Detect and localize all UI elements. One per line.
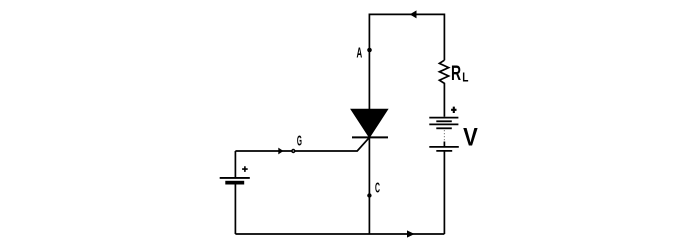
battery V stub wire: [443, 142, 445, 147]
battery V cell plate short 3: [436, 150, 452, 152]
svg-text:V: V: [463, 123, 478, 151]
SCR gate diagonal: [235, 137, 369, 151]
battery V cell plate long 1: [429, 117, 458, 119]
junction dot G: [291, 149, 295, 153]
battery V cell plate short 1: [436, 120, 452, 122]
wire bottom rail: [235, 233, 444, 235]
wire left battery branch: [234, 151, 236, 234]
battery V cell plate short 2: [436, 127, 452, 129]
svg-text:L: L: [462, 70, 468, 85]
resistor RL: [439, 60, 448, 116]
battery E thick negative plate: [225, 181, 244, 185]
battery V cell plate long 2: [429, 123, 458, 125]
battery E long plate: [220, 177, 250, 179]
arrow bottom (pointing right): [407, 231, 414, 237]
node C: [367, 193, 371, 197]
battery V cell plate long 3: [429, 146, 459, 148]
svg-text:G: G: [297, 134, 302, 149]
node A: [367, 48, 372, 53]
SCR cathode bar: [352, 136, 388, 138]
svg-text:A: A: [357, 44, 363, 62]
svg-text:C: C: [375, 181, 380, 196]
battery E plus sign: [242, 166, 248, 172]
wire SCR cathode down: [368, 137, 370, 234]
wire top rail: [369, 14, 444, 110]
svg-text:R: R: [451, 61, 461, 85]
battery V plus sign: [451, 107, 456, 113]
SCR triangle (anode): [351, 109, 388, 137]
battery V dotted continuation: [443, 130, 445, 142]
wire battery V to bottom rail: [443, 151, 445, 234]
arrow gate (pointing right): [279, 148, 283, 154]
arrow top (pointing left): [410, 11, 416, 18]
